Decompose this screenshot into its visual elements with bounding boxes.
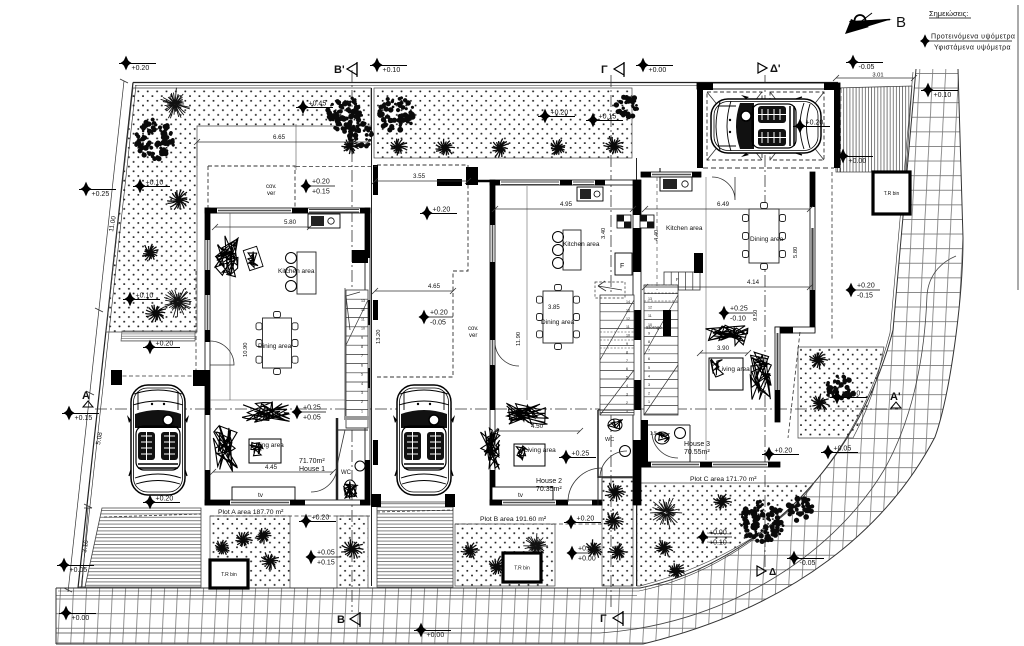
house 3 top wall and entrance: [641, 168, 735, 200]
svg-text:4.14: 4.14: [747, 279, 760, 286]
house 1 staircase: [344, 290, 370, 428]
svg-text:Kitchen area: Kitchen area: [278, 268, 315, 275]
tree palm 35: [667, 563, 685, 578]
svg-text:4.95: 4.95: [560, 201, 573, 208]
tree star 1: [161, 88, 190, 119]
svg-text:+0.20: +0.20: [312, 515, 330, 522]
svg-text:3.55: 3.55: [413, 173, 426, 180]
elevation marker m11: [538, 109, 575, 124]
svg-text:3: 3: [626, 392, 628, 396]
dimension 4.50: [492, 423, 583, 434]
svg-text:+0.15: +0.15: [599, 114, 617, 121]
elevation marker m25: [57, 558, 94, 574]
svg-text:+0.20: +0.20: [433, 207, 451, 214]
plot B bottom dashed line: [455, 523, 616, 525]
right neighbour boundary line: [1017, 5, 1019, 290]
section marker A' right: [890, 391, 901, 408]
svg-text:10: 10: [626, 334, 630, 338]
house 2 staircase: [595, 281, 634, 415]
plot area labels: [218, 476, 757, 523]
svg-text:+0.15: +0.15: [312, 189, 330, 196]
tree palm 27: [605, 483, 626, 502]
tree palm 12: [436, 139, 455, 156]
house 1 eaves overhang dashed line: [195, 271, 197, 375]
fence between plot B and C: [636, 158, 638, 586]
svg-text:Dining area: Dining area: [750, 236, 784, 243]
house 3 WC: [648, 425, 690, 462]
svg-text:Plot C area 171.70 m²: Plot C area 171.70 m²: [690, 476, 757, 483]
elevation marker m26: [59, 606, 96, 622]
plot A top/left garden (dotted): [106, 88, 371, 332]
house 2 entrance door arc: [568, 468, 602, 502]
svg-text:ver: ver: [267, 191, 275, 197]
car in plot C garage: [711, 95, 821, 157]
svg-text:-0.05: -0.05: [800, 560, 816, 567]
svg-text:+0.15: +0.15: [317, 560, 335, 567]
svg-text:6: 6: [648, 357, 650, 361]
tree star 30: [650, 498, 682, 529]
svg-text:5: 5: [626, 376, 628, 380]
section marker Gamma bottom: [600, 611, 623, 626]
svg-text:A: A: [82, 390, 90, 402]
svg-text:+0.00: +0.00: [72, 615, 90, 622]
svg-text:5: 5: [648, 366, 650, 370]
house 2 living sofa: [506, 403, 548, 424]
svg-text:5.80: 5.80: [793, 247, 799, 258]
tree palm 24: [489, 557, 506, 574]
section marker B bottom: [337, 612, 360, 627]
svg-text:+0.20: +0.20: [551, 110, 569, 117]
svg-text:B: B: [337, 614, 345, 626]
svg-text:-0.10: -0.10: [730, 316, 746, 323]
tree palm 36: [809, 352, 828, 369]
svg-text:+0.10: +0.10: [934, 92, 952, 99]
house 1 living sofa bottom: [242, 402, 290, 422]
plot C side garden patch (dotted): [798, 347, 884, 438]
svg-text:5.80: 5.80: [284, 219, 297, 226]
garage parking boxes with X cross: [707, 92, 824, 160]
svg-text:+0.20: +0.20: [156, 496, 174, 503]
house 1 WC fixtures: [344, 461, 365, 498]
tree blob 2: [134, 118, 175, 162]
elevation marker m30: [846, 283, 881, 300]
svg-text:-0.05: -0.05: [430, 320, 446, 327]
svg-text:10.90: 10.90: [243, 342, 249, 357]
house 2 labels: [266, 184, 600, 493]
plot A driveway ramp (horizontal line hatch): [78, 508, 201, 587]
svg-text:1: 1: [361, 409, 363, 413]
svg-text:+0.25: +0.25: [303, 405, 321, 412]
tree palm 14: [551, 139, 566, 155]
tree palm 6: [145, 305, 166, 323]
plot C main garden (dotted, bounded by road curve): [637, 483, 814, 586]
tree blob 37: [826, 375, 856, 401]
svg-text:11: 11: [626, 325, 630, 329]
svg-text:9.50: 9.50: [753, 310, 759, 321]
tree palm 28: [604, 512, 624, 531]
svg-text:4: 4: [626, 384, 628, 388]
section line Delta vertical: [764, 75, 766, 568]
svg-text:12: 12: [361, 308, 365, 312]
svg-text:6.65: 6.65: [273, 134, 286, 141]
tree palm 26: [586, 539, 602, 557]
svg-text:+0.20: +0.20: [312, 179, 330, 186]
house 1 duct block above stairs: [352, 250, 368, 263]
svg-text:3.40: 3.40: [601, 228, 607, 239]
tree palm 13: [492, 139, 509, 158]
svg-text:Living area: Living area: [718, 366, 750, 373]
svg-text:+0.25: +0.25: [92, 191, 110, 198]
svg-text:Kitchen area: Kitchen area: [666, 225, 703, 232]
tree palm 20: [261, 552, 279, 570]
section line A-A horizontal: [95, 408, 898, 410]
T.R bin plot B: [503, 553, 541, 582]
house 1 exterior walls: [205, 208, 370, 506]
svg-text:10: 10: [361, 327, 365, 331]
house 2 court door arc: [495, 342, 519, 366]
svg-text:ver: ver: [469, 333, 477, 339]
section line Gamma vertical: [610, 75, 612, 610]
plot C garage apron (vertical line hatch): [836, 86, 912, 172]
house 2 dining table: [537, 285, 580, 350]
section line B-B vertical: [351, 70, 353, 612]
house 1 interior partitions: [210, 213, 368, 500]
svg-text:6: 6: [626, 367, 628, 371]
svg-text:13: 13: [361, 299, 365, 303]
house 1 rug (tilted): [243, 246, 263, 270]
tree palm 15: [603, 136, 623, 154]
plot C dashed boundary right: [831, 172, 833, 340]
svg-text:T.R bin: T.R bin: [884, 191, 900, 197]
plot A bottom dashed line: [210, 515, 370, 517]
tree blob 8: [347, 121, 374, 148]
house 2 lounge chairs: [481, 428, 500, 469]
car in plot A court: [127, 385, 189, 495]
svg-text:7: 7: [361, 354, 363, 358]
house 3 sink counter top: [660, 177, 692, 191]
house 3 right wall step and lower: [775, 327, 815, 422]
svg-text:+0.20: +0.20: [857, 283, 875, 290]
dimension 3.01: [833, 73, 917, 82]
svg-text:70.35m²: 70.35m²: [536, 486, 562, 493]
tree palm 21: [225, 564, 239, 578]
dimension 3.55: [372, 173, 471, 184]
svg-text:+0.20: +0.20: [132, 65, 150, 72]
svg-text:4.65: 4.65: [428, 283, 441, 290]
section marker Delta bottom: [757, 566, 776, 578]
svg-text:T.R bin: T.R bin: [514, 566, 530, 572]
svg-text:14: 14: [626, 300, 630, 304]
house 1 door arcs: [210, 341, 345, 492]
elevation marker m6: [79, 182, 116, 198]
dimension 4.14: [642, 279, 813, 290]
svg-text:4.40: 4.40: [654, 230, 660, 241]
svg-text:+0.00: +0.00: [649, 67, 667, 74]
elevation marker m23: [299, 514, 336, 529]
tree star 25: [523, 533, 548, 557]
house 3 bottom walls: [641, 462, 780, 468]
tree palm 23: [461, 543, 480, 560]
svg-text:F: F: [676, 277, 679, 282]
house 2+3 party wall cooktops (checkered): [617, 215, 654, 228]
svg-text:4.45: 4.45: [265, 464, 278, 471]
tree blob 7: [325, 97, 363, 134]
tree palm 3: [167, 190, 189, 210]
svg-text:Plot B area 191.60 m²: Plot B area 191.60 m²: [480, 516, 547, 523]
house 3 labels: [666, 225, 784, 456]
svg-text:-0.05: -0.05: [859, 64, 875, 71]
elevation marker m18: [62, 406, 99, 422]
svg-text:+0.05: +0.05: [303, 415, 321, 422]
road pavement (grid hatched, bottom + right with curve): [56, 69, 963, 644]
svg-text:Σημειώσεις:: Σημειώσεις:: [929, 9, 968, 18]
tree palm 4: [143, 244, 159, 260]
tree star 5: [163, 289, 192, 317]
svg-text:8: 8: [361, 345, 363, 349]
elevation marker m10: [420, 206, 457, 221]
svg-text:Δ: Δ: [769, 567, 776, 578]
svg-text:-0.15: -0.15: [857, 293, 873, 300]
plot A front gate posts and dashed fence: [111, 370, 205, 386]
svg-text:6: 6: [361, 363, 363, 367]
house 3 left party wall lower portion: [641, 420, 648, 467]
svg-text:+0.00: +0.00: [427, 632, 445, 639]
plot B bottom garden (dotted): [455, 478, 633, 586]
house 1 covered verandah (dashed): [208, 166, 295, 208]
house 3 right wall upper: [810, 172, 815, 332]
svg-text:6.49: 6.49: [717, 201, 730, 208]
dimension 5.80 house1: [212, 219, 313, 230]
svg-text:B: B: [896, 14, 906, 31]
svg-text:3.90: 3.90: [717, 345, 730, 352]
left boundary dimension line with ticks: [64, 79, 128, 592]
svg-text:+0.05: +0.05: [70, 567, 88, 574]
dimension 4.45: [210, 464, 336, 475]
house 2 wall picture: [514, 444, 545, 466]
elevation marker m21: [719, 306, 754, 323]
elevation marker m19: [292, 405, 327, 422]
svg-text:tv: tv: [518, 492, 524, 499]
svg-text:Γ: Γ: [600, 613, 607, 625]
section marker Delta' top: [758, 63, 781, 75]
elevation marker m15: [419, 310, 454, 327]
svg-text:9: 9: [626, 342, 628, 346]
svg-text:11: 11: [361, 317, 365, 321]
svg-text:7: 7: [648, 349, 650, 353]
tree palm 29: [608, 543, 627, 560]
fence between plot A and B: [371, 88, 373, 586]
elevation marker m16: [123, 292, 160, 307]
svg-text:70.55m²: 70.55m²: [684, 449, 710, 456]
svg-text:+0.00: +0.00: [578, 556, 596, 563]
svg-text:7: 7: [626, 359, 628, 363]
svg-text:1.5: 1.5: [650, 431, 657, 437]
svg-text:+0.05: +0.05: [317, 550, 335, 557]
north arrow: [845, 13, 906, 34]
svg-text:11: 11: [648, 314, 652, 318]
svg-text:Dining area: Dining area: [541, 319, 575, 326]
svg-text:3.85: 3.85: [548, 305, 560, 311]
svg-text:+0.20: +0.20: [577, 516, 595, 523]
tree blob 33: [786, 496, 814, 523]
svg-text:Dining area: Dining area: [258, 343, 292, 350]
svg-text:A': A': [890, 391, 901, 403]
svg-text:+0.25: +0.25: [730, 306, 748, 313]
elevation marker m22: [143, 495, 180, 510]
svg-text:+0.10: +0.10: [146, 180, 164, 187]
svg-text:+0.10: +0.10: [383, 67, 401, 74]
house 1 kitchen appliance block: [308, 214, 340, 228]
tree blob 16: [614, 95, 639, 119]
svg-text:Υφιστάμενα υψόμετρα: Υφιστάμενα υψόμετρα: [934, 44, 1011, 52]
house 3 garage walls: [697, 83, 840, 168]
svg-text:+0.20: +0.20: [806, 120, 824, 127]
svg-text:+0.20: +0.20: [430, 310, 448, 317]
garden steps band plot A left: [121, 331, 195, 341]
tree palm 11: [341, 139, 358, 155]
elevation marker m28: [564, 515, 601, 530]
dimension 6.65: [194, 134, 371, 145]
elevation marker m35: [787, 551, 824, 567]
house 3 corridor edge line: [705, 177, 707, 460]
elevation marker m33: [830, 390, 867, 405]
tree palm 19: [256, 528, 272, 544]
house 3 kitchen counter dashed edge: [656, 177, 658, 290]
svg-text:+0.20: +0.20: [156, 341, 174, 348]
plot B driveway ramp (horizontal line hatch): [377, 502, 453, 587]
tree palm 18: [235, 532, 252, 547]
svg-text:Γ: Γ: [601, 64, 608, 76]
section marker Gamma top: [601, 62, 624, 77]
svg-text:13.20: 13.20: [376, 329, 382, 344]
svg-text:4: 4: [361, 382, 363, 386]
house 1 tv cabinet: [232, 487, 295, 500]
elevation marker m3: [636, 58, 673, 74]
svg-text:5: 5: [361, 373, 363, 377]
house 1 wall picture: [249, 439, 281, 463]
house 2 left plot wall pieces: [373, 165, 378, 465]
house 1 kitchen island and stools: [286, 252, 317, 294]
svg-text:1: 1: [648, 400, 650, 404]
svg-text:+0.45: +0.45: [309, 101, 327, 108]
tree palm 22: [341, 539, 363, 559]
site boundary left edge: [78, 83, 136, 589]
svg-text:Living area: Living area: [524, 447, 556, 454]
plot A bottom garden (dotted): [210, 516, 368, 588]
dimension 6.49: [642, 201, 813, 212]
svg-text:+0.00: +0.00: [849, 158, 867, 165]
rotated dims: [601, 228, 799, 321]
svg-text:2: 2: [648, 392, 650, 396]
elevation marker m31: [762, 447, 799, 462]
elevation marker m27: [414, 623, 451, 639]
notes legend: [920, 9, 1015, 52]
svg-text:WC: WC: [341, 470, 352, 476]
house 2 WC: [598, 410, 634, 505]
elevation marker m2: [370, 58, 407, 74]
elevation marker m17: [143, 340, 180, 355]
house 3 dining table: [743, 203, 786, 270]
section marker A left: [82, 390, 93, 407]
elevation marker m12: [586, 113, 623, 128]
elevation marker m29: [567, 546, 602, 563]
elevation marker m1: [119, 56, 156, 72]
svg-text:71.70m²: 71.70m²: [299, 458, 325, 465]
svg-text:cov.: cov.: [266, 184, 277, 190]
plot B gate posts: [371, 494, 455, 507]
svg-text:WC: WC: [605, 437, 614, 443]
elevation marker m20: [559, 450, 596, 465]
svg-text:+0.10: +0.10: [843, 391, 861, 398]
house 3 sofa: [706, 325, 748, 345]
tree palm 38: [811, 394, 829, 411]
house 2 court dashed outline (covered verandah): [377, 165, 468, 377]
svg-text:8: 8: [648, 340, 650, 344]
house 1 armchairs left: [213, 426, 237, 472]
svg-text:cov.: cov.: [468, 326, 479, 332]
car in plot B court: [393, 385, 455, 495]
elevation marker m13: [793, 119, 830, 134]
svg-text:tv: tv: [258, 492, 264, 499]
svg-text:Δ': Δ': [770, 63, 781, 75]
house 1 sofa corner scribble: [215, 236, 238, 277]
svg-text:F: F: [620, 263, 624, 270]
plot B top garden (dotted): [374, 88, 632, 158]
elevation marker m5: [921, 83, 958, 99]
elevation marker m24: [306, 550, 341, 567]
svg-text:12: 12: [648, 306, 652, 310]
svg-text:2: 2: [361, 400, 363, 404]
svg-text:+0.15: +0.15: [75, 415, 93, 422]
house 2 fridge box F: [615, 253, 632, 275]
house 3 staircase upper run: [652, 253, 703, 312]
dimension 4.95: [492, 201, 636, 212]
svg-text:3.01: 3.01: [872, 73, 883, 79]
svg-text:+0.05: +0.05: [578, 546, 596, 553]
svg-text:House 2: House 2: [536, 478, 562, 485]
svg-text:House 3: House 3: [684, 441, 710, 448]
svg-text:Plot A area 187.70 m²: Plot A area 187.70 m²: [218, 509, 284, 516]
svg-text:Προτεινόμενα υψόμετρα: Προτεινόμενα υψόμετρα: [931, 33, 1015, 41]
tree blob 9: [377, 96, 415, 132]
svg-text:+0.20: +0.20: [775, 448, 793, 455]
T.R bin plot C: [873, 172, 910, 214]
svg-text:B': B': [334, 64, 345, 76]
tree blob 32: [740, 500, 784, 544]
section marker B' top: [334, 62, 357, 77]
svg-text:T.R bin: T.R bin: [221, 572, 237, 578]
svg-text:4: 4: [648, 374, 650, 378]
svg-text:8: 8: [626, 350, 628, 354]
T.R bin plot A: [210, 560, 248, 588]
tree palm 34: [654, 540, 673, 557]
elevation marker m9: [301, 179, 336, 196]
tree palm 17: [215, 540, 229, 555]
svg-text:3: 3: [648, 383, 650, 387]
elevation marker m7: [133, 179, 170, 194]
house 1 labels: [243, 268, 352, 476]
house 2 sink unit: [577, 187, 603, 201]
elevation marker m34: [698, 530, 733, 547]
house 2 tv cabinet: [492, 487, 553, 500]
svg-text:12: 12: [626, 317, 630, 321]
svg-text:3: 3: [361, 391, 363, 395]
elevation marker m8: [296, 100, 333, 115]
house 2 kitchen island and stools: [553, 230, 582, 270]
tree palm 10: [390, 139, 407, 156]
elevation marker m4: [846, 55, 883, 71]
svg-text:9: 9: [648, 331, 650, 335]
